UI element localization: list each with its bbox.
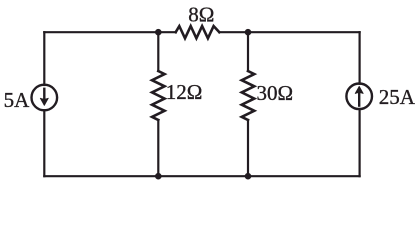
current source I1 5A circle <box>32 85 58 111</box>
wire left vertical lower <box>43 110 45 176</box>
svg-text:30Ω: 30Ω <box>257 81 294 105</box>
svg-text:25A: 25A <box>379 85 416 109</box>
resistor R1 8ohm <box>176 26 220 38</box>
wire top-left segment <box>44 31 175 33</box>
node junction dot bottom-right <box>245 173 252 180</box>
svg-text:12Ω: 12Ω <box>166 80 203 104</box>
svg-text:5A: 5A <box>4 88 31 112</box>
wire left vertical upper <box>43 32 45 85</box>
current source I2 25A circle <box>346 84 372 110</box>
wire branch 30-ohm lower <box>247 120 249 176</box>
wire right vertical upper <box>359 32 361 84</box>
resistor R2 12ohm <box>152 71 165 120</box>
wire right vertical lower <box>359 109 361 176</box>
node junction dot top-right <box>245 29 252 36</box>
current source I1 arrow (down) <box>40 88 48 106</box>
resistor R3 30ohm <box>242 71 255 120</box>
wire branch 12-ohm lower <box>157 120 159 176</box>
current source I2 arrow (up) <box>355 86 363 107</box>
wire top-right segment <box>219 31 359 33</box>
wire branch 30-ohm upper <box>247 32 249 71</box>
node junction dot top-left <box>155 29 162 36</box>
node junction dot bottom-left <box>155 173 162 180</box>
wire branch 12-ohm upper <box>157 32 159 71</box>
wire bottom <box>44 175 359 177</box>
svg-text:8Ω: 8Ω <box>188 2 214 26</box>
